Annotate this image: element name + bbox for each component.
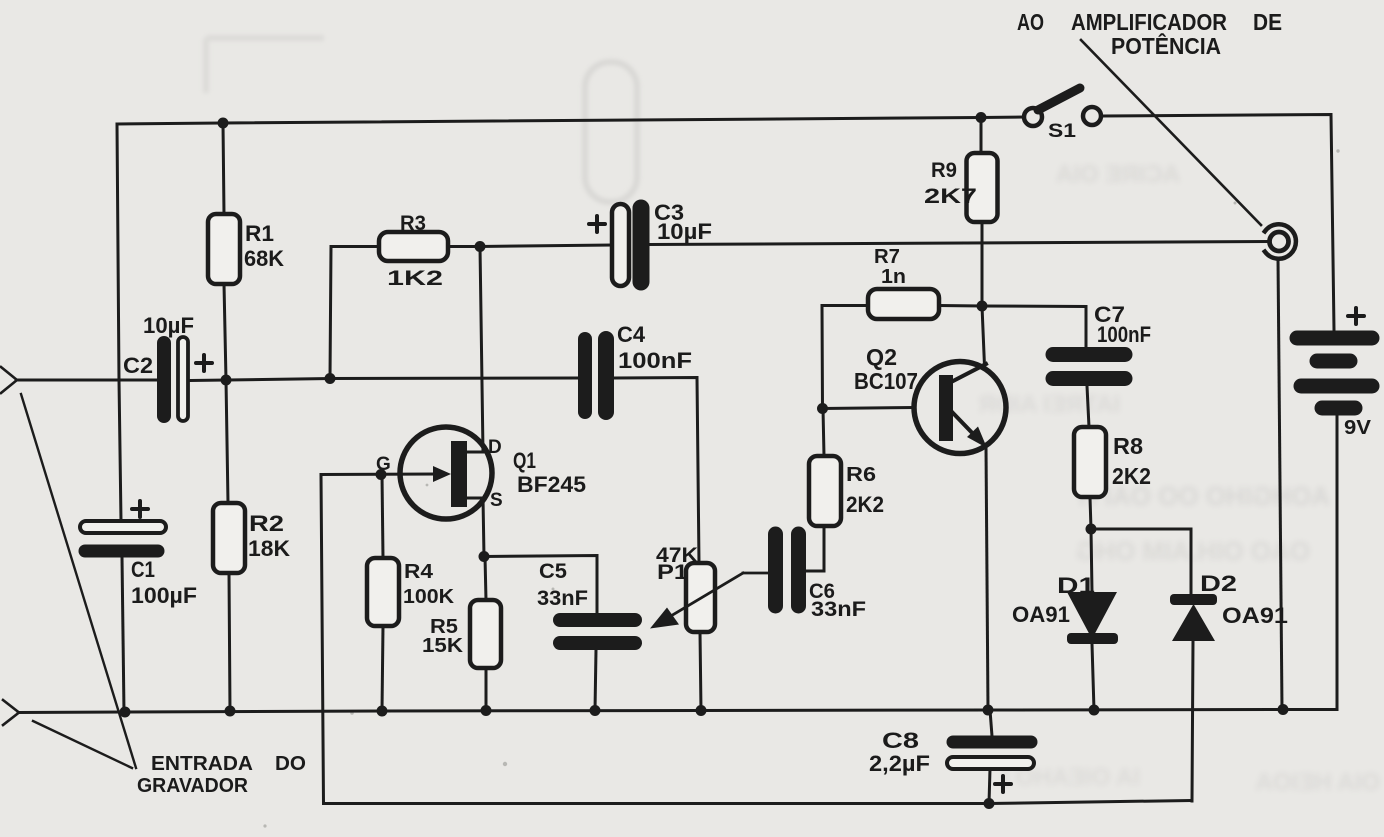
wire: battery - to ground rail bbox=[1336, 415, 1339, 710]
svg-text:P1: P1 bbox=[657, 561, 688, 584]
svg-text:100nF: 100nF bbox=[1097, 322, 1151, 347]
capacitor C3 (electrolytic) bbox=[612, 204, 629, 286]
output jack J1 bbox=[1270, 232, 1289, 251]
wire: gate line bbox=[321, 473, 437, 477]
svg-text:IATREI AIDR: IATREI AIDR bbox=[979, 391, 1120, 418]
svg-text:OIA HEIOA: OIA HEIOA bbox=[1256, 769, 1380, 796]
node: R3/C3/drain bbox=[475, 241, 486, 252]
diode D1 (OA91) bbox=[1091, 529, 1092, 592]
wire: collector node to C7 bbox=[982, 306, 1086, 347]
svg-text:18K: 18K bbox=[248, 536, 290, 561]
svg-text:ACIRE OIA: ACIRE OIA bbox=[1056, 161, 1180, 188]
wire: C5 to ground bbox=[595, 650, 596, 711]
resistor R8 bbox=[1074, 427, 1106, 497]
wire: collector into Q2 bbox=[982, 306, 985, 366]
node: base / R6 / R7 bbox=[817, 403, 828, 414]
svg-text:AMPLIFICADOR: AMPLIFICADOR bbox=[1071, 9, 1227, 35]
wire: output line (C3 to jack) bbox=[480, 245, 612, 247]
plus sign markers bbox=[132, 216, 1364, 792]
svg-text:OA91: OA91 bbox=[1222, 603, 1288, 628]
svg-text:100µF: 100µF bbox=[131, 583, 197, 608]
svg-text:2K7: 2K7 bbox=[924, 185, 977, 208]
svg-text:BF245: BF245 bbox=[517, 472, 586, 497]
wire: source bbox=[467, 498, 484, 557]
svg-text:2K2: 2K2 bbox=[846, 492, 884, 517]
diode D2 (OA91) bbox=[1091, 529, 1191, 594]
svg-text:DE: DE bbox=[1253, 9, 1282, 35]
svg-text:Q2: Q2 bbox=[866, 344, 897, 370]
svg-text:100K: 100K bbox=[403, 586, 455, 608]
svg-text:2K2: 2K2 bbox=[1112, 463, 1151, 489]
svg-text:GRAVADOR: GRAVADOR bbox=[137, 775, 249, 797]
svg-text:AO: AO bbox=[1017, 9, 1044, 35]
svg-text:DO: DO bbox=[275, 753, 306, 775]
wire: jack sleeve to ground rail bbox=[1278, 258, 1282, 710]
svg-text:R6: R6 bbox=[846, 464, 876, 486]
svg-text:100nF: 100nF bbox=[618, 348, 692, 373]
svg-text:OAO OIH.AIM OHG: OAO OIH.AIM OHG bbox=[1076, 536, 1310, 566]
svg-text:1K2: 1K2 bbox=[387, 267, 443, 290]
resistor R5 bbox=[485, 557, 486, 601]
svg-text:R9: R9 bbox=[931, 159, 957, 182]
wire: drain bbox=[467, 247, 483, 453]
wire: left rail (top rail to C1) bbox=[117, 124, 121, 521]
wire: C6 to R6 bbox=[806, 526, 824, 571]
svg-text:BC107: BC107 bbox=[854, 368, 918, 394]
wire: source node to C5 bbox=[484, 556, 597, 614]
wire: base line bbox=[823, 408, 914, 409]
node: signal / R3 branch bbox=[325, 373, 336, 384]
svg-text:68K: 68K bbox=[244, 246, 284, 271]
svg-text:33nF: 33nF bbox=[537, 587, 588, 610]
svg-text:R7: R7 bbox=[874, 246, 900, 268]
polarity + of C2 bbox=[196, 355, 212, 371]
svg-text:Q1: Q1 bbox=[513, 448, 536, 473]
svg-text:C5: C5 bbox=[539, 560, 567, 583]
wire: C2 to R3 branch bbox=[191, 379, 330, 381]
svg-text:9V: 9V bbox=[1344, 417, 1372, 439]
polarity + of C8 bbox=[995, 776, 1011, 792]
node: collector / R7 / C7 bbox=[977, 301, 988, 312]
wire: bottom return rail bbox=[321, 475, 1190, 804]
potentiometer P1 bbox=[686, 563, 715, 632]
wire: C1 to ground rail bbox=[122, 557, 124, 712]
capacitor C2 (electrolytic) bbox=[157, 343, 171, 416]
svg-text:C1: C1 bbox=[131, 557, 155, 582]
wire: top supply rail bbox=[117, 117, 1023, 124]
transistor Q2 (BC107) bbox=[914, 362, 1006, 454]
battery B1 9V bbox=[1297, 338, 1372, 408]
wire: input to C2 bbox=[16, 379, 157, 382]
wiper arrow of P1 bbox=[660, 573, 743, 623]
svg-text:10µF: 10µF bbox=[657, 219, 712, 244]
capacitor C4 bbox=[578, 339, 592, 412]
polarity + of battery bbox=[1348, 308, 1364, 324]
svg-text:1n: 1n bbox=[881, 266, 906, 288]
wire: R9 to collector node bbox=[981, 222, 984, 306]
svg-text:10µF: 10µF bbox=[143, 313, 194, 338]
capacitor C7 bbox=[1053, 347, 1125, 362]
svg-text:C8: C8 bbox=[882, 728, 919, 753]
svg-text:33nF: 33nF bbox=[811, 598, 866, 621]
node: C2 / R1 / R2 bbox=[221, 375, 232, 386]
capacitor C5 bbox=[560, 613, 635, 627]
polarity + of C3 bbox=[589, 216, 605, 232]
capacitor C6 bbox=[768, 534, 783, 606]
svg-text:R3: R3 bbox=[400, 212, 426, 235]
resistor R6 bbox=[809, 456, 841, 526]
node: ground dots bbox=[120, 707, 131, 718]
node: top rail / R9 bbox=[976, 112, 987, 123]
svg-text:D: D bbox=[488, 437, 502, 458]
svg-text:D2: D2 bbox=[1200, 571, 1237, 596]
wire: emitter of Q2 bbox=[953, 413, 980, 441]
node: top rail / R1 bbox=[218, 118, 229, 129]
switch S1 bbox=[1024, 108, 1042, 126]
svg-text:R2: R2 bbox=[249, 511, 284, 536]
node: C8 / bottom rail bbox=[984, 798, 995, 809]
input arrow (bottom) bbox=[3, 700, 19, 725]
svg-text:OA91: OA91 bbox=[1012, 602, 1070, 627]
transistor Q1 (BF245) bbox=[400, 427, 492, 519]
svg-text:ENTRADA: ENTRADA bbox=[151, 753, 253, 775]
resistor R9 bbox=[980, 118, 983, 154]
svg-text:G: G bbox=[376, 454, 391, 475]
wire: C7 to R8 bbox=[1087, 386, 1089, 427]
svg-text:C2: C2 bbox=[123, 353, 153, 378]
capacitor C8 (electrolytic) bbox=[990, 710, 992, 736]
svg-text:S: S bbox=[490, 490, 503, 511]
svg-text:R8: R8 bbox=[1113, 433, 1143, 459]
bleed-through ghost shapes (page reverse) bbox=[979, 161, 1380, 796]
resistor R3 bbox=[379, 232, 448, 261]
node: gate / R4 bbox=[376, 469, 387, 480]
svg-text:POTÊNCIA: POTÊNCIA bbox=[1111, 32, 1221, 59]
svg-text:S1: S1 bbox=[1048, 121, 1077, 142]
input arrow (top) bbox=[1, 367, 17, 393]
resistor R7 (1n) feedback bbox=[822, 306, 868, 409]
wire: callout lines to input label bbox=[21, 394, 136, 768]
wire: C4 to P1 top bbox=[614, 378, 699, 564]
polarity + of C1 bbox=[132, 501, 148, 517]
wire: S1 to battery + bbox=[1102, 115, 1334, 331]
resistor R2 bbox=[226, 380, 228, 503]
svg-text:D1: D1 bbox=[1057, 573, 1095, 598]
node: source / R5 / C5 bbox=[479, 551, 490, 562]
svg-text:2,2µF: 2,2µF bbox=[869, 751, 930, 776]
svg-text:C4: C4 bbox=[617, 322, 646, 347]
wire: ground rail bbox=[18, 710, 1337, 713]
resistor R1 bbox=[223, 123, 224, 214]
node: R8 / D1 / D2 bbox=[1086, 524, 1097, 535]
svg-text:R1: R1 bbox=[245, 221, 274, 246]
resistor R4 bbox=[382, 475, 383, 559]
capacitor C1 (electrolytic) bbox=[80, 521, 166, 533]
svg-text:15K: 15K bbox=[422, 635, 464, 657]
svg-text:R4: R4 bbox=[404, 561, 434, 583]
wire: callout diagonal to jack bbox=[1081, 40, 1261, 225]
wire: signal line to C4 bbox=[330, 377, 578, 381]
